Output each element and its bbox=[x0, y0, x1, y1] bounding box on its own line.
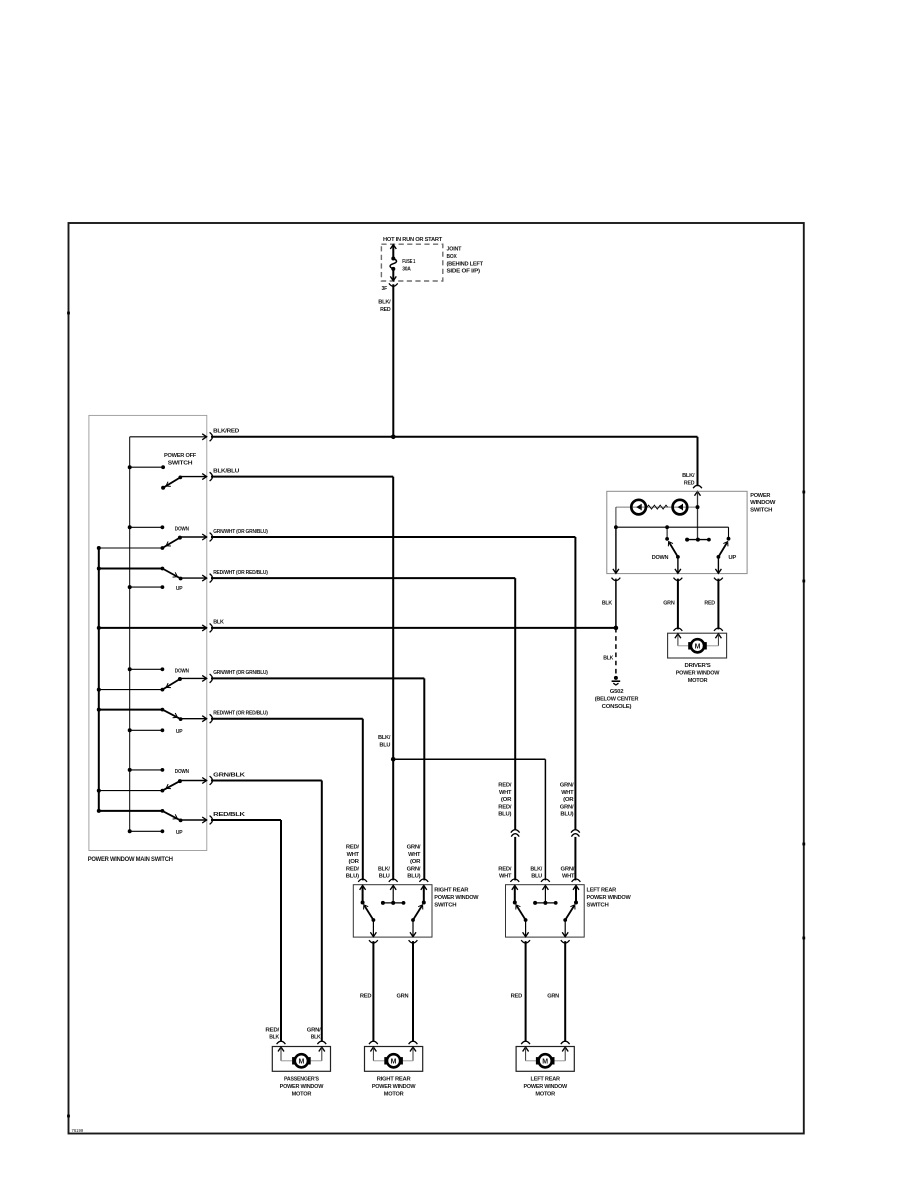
driver switch B+ contact bar bbox=[687, 539, 709, 541]
svg-text:POWER WINDOW: POWER WINDOW bbox=[372, 1084, 416, 1090]
driver's power window motor box bbox=[668, 633, 727, 658]
svg-text:WHT: WHT bbox=[562, 874, 575, 880]
left rear switch input stubs bbox=[512, 886, 518, 890]
connector pin BLK/RED at main switch edge bbox=[202, 434, 206, 440]
svg-text:WHT: WHT bbox=[408, 852, 421, 858]
left rear power window switch box bbox=[506, 885, 585, 937]
svg-text:(OR: (OR bbox=[410, 859, 421, 865]
passenger power window motor box bbox=[272, 1047, 330, 1072]
right rear switch output drops bbox=[372, 920, 374, 937]
svg-text:MOTOR: MOTOR bbox=[535, 1091, 556, 1097]
svg-text:RED: RED bbox=[511, 993, 522, 999]
svg-text:POWER WINDOW MAIN SWITCH: POWER WINDOW MAIN SWITCH bbox=[88, 856, 173, 863]
switch left rear right blade bbox=[565, 906, 574, 920]
connectors at left rear motor top bbox=[521, 1041, 530, 1044]
wire BLK/RED from fuse down to junction bbox=[392, 284, 394, 437]
connector pin BLK/BLU at main switch edge bbox=[202, 474, 206, 480]
connector pin RED/BLK at main switch edge bbox=[202, 817, 206, 823]
junction BLK/BLU node bbox=[391, 757, 396, 762]
main switch BLK ground row bbox=[99, 627, 207, 629]
svg-text:RED/WHT (OR RED/BLU): RED/WHT (OR RED/BLU) bbox=[213, 711, 268, 717]
connectors at passenger motor top bbox=[277, 1041, 286, 1044]
svg-text:DRIVER'S: DRIVER'S bbox=[685, 663, 711, 669]
wire GRN/WHT (OR GRN/BLU) row 1 bbox=[211, 536, 575, 538]
connector 3F bbox=[389, 283, 398, 286]
svg-text:(OR: (OR bbox=[501, 797, 512, 803]
svg-text:BLK: BLK bbox=[311, 1035, 322, 1041]
svg-text:BLU: BLU bbox=[379, 874, 390, 880]
connector pin RED/WHT (OR RED/BLU) at main switch edge bbox=[202, 716, 206, 722]
left rear power window motor box bbox=[516, 1047, 574, 1072]
svg-text:MOTOR: MOTOR bbox=[384, 1091, 405, 1097]
svg-text:RIGHT REAR: RIGHT REAR bbox=[377, 1077, 412, 1083]
wire BLK driver switch to junction bbox=[615, 579, 617, 628]
svg-text:SWITCH: SWITCH bbox=[587, 902, 609, 908]
connector pin GRN/WHT (OR GRN/BLU) at main switch edge bbox=[202, 534, 206, 540]
border tick marks bbox=[67, 312, 70, 315]
right rear motor internal wiring bbox=[372, 1047, 374, 1061]
wire RED to driver motor bbox=[717, 579, 719, 630]
svg-text:WINDOW: WINDOW bbox=[750, 500, 776, 506]
wire GRN/WHT vertical to right rear switch bbox=[423, 678, 425, 880]
joint box (dashed) bbox=[381, 244, 442, 281]
ground G502 bbox=[614, 676, 618, 680]
svg-text:FUSE 1: FUSE 1 bbox=[402, 259, 416, 265]
switch main PASS UP bbox=[99, 810, 163, 812]
svg-text:SIDE OF I/P): SIDE OF I/P) bbox=[447, 269, 481, 275]
connector below driver switch GRN bbox=[674, 578, 683, 581]
connector below driver switch BLK bbox=[612, 578, 621, 581]
illumination lamp left in driver switch bbox=[616, 506, 698, 508]
svg-text:RED: RED bbox=[360, 993, 371, 999]
svg-text:SWITCH: SWITCH bbox=[434, 902, 456, 908]
svg-text:WHT: WHT bbox=[561, 790, 574, 796]
connectors at right rear motor top bbox=[369, 1041, 378, 1044]
wire GRN/WHT vertical to left rear switch bbox=[574, 537, 576, 830]
svg-text:30A: 30A bbox=[402, 267, 411, 273]
wire BLK/BLU vertical bbox=[392, 477, 394, 760]
driver switch BLK output drop bbox=[615, 527, 617, 573]
svg-text:GRN/: GRN/ bbox=[407, 866, 421, 872]
wire RED left rear switch to motor bbox=[525, 941, 527, 1042]
right rear power window switch box bbox=[353, 885, 432, 937]
svg-text:RED/: RED/ bbox=[498, 783, 512, 789]
svg-text:RED/: RED/ bbox=[346, 866, 360, 872]
wire BLK/BLU branch to left rear switch bbox=[393, 758, 545, 760]
switch main LR DOWN bbox=[130, 526, 163, 528]
resistor between illumination lamps bbox=[647, 505, 668, 509]
connectors below right rear switch bbox=[369, 940, 378, 943]
svg-text:GRN/WHT (OR GRN/BLU): GRN/WHT (OR GRN/BLU) bbox=[213, 529, 268, 535]
connector pin BLK at main switch edge bbox=[202, 625, 206, 631]
wire RED right rear switch to motor bbox=[372, 941, 374, 1042]
power window main switch box bbox=[89, 415, 207, 850]
switch main LR UP bbox=[99, 568, 163, 570]
svg-text:GRN/BLK: GRN/BLK bbox=[213, 772, 246, 778]
svg-text:RED/: RED/ bbox=[346, 845, 360, 851]
svg-text:UP: UP bbox=[176, 729, 183, 735]
diagram border frame bbox=[69, 223, 804, 1134]
right rear power window motor box bbox=[365, 1047, 423, 1072]
connectors at right rear switch top bbox=[358, 879, 367, 882]
wire BLK/RED inside driver switch bbox=[697, 491, 699, 539]
wire GRN/BLK to passenger motor bbox=[211, 780, 322, 782]
svg-text:RED/: RED/ bbox=[498, 866, 512, 872]
svg-text:M: M bbox=[542, 1059, 548, 1066]
svg-text:BLU): BLU) bbox=[498, 812, 511, 818]
svg-text:M: M bbox=[391, 1059, 397, 1066]
connectors below left rear switch bbox=[521, 940, 530, 943]
svg-text:M: M bbox=[298, 1059, 304, 1066]
svg-text:3F: 3F bbox=[382, 286, 388, 292]
svg-text:POWER WINDOW: POWER WINDOW bbox=[523, 1084, 567, 1090]
driver power window switch box bbox=[607, 491, 747, 573]
switch driver UP blade bbox=[718, 543, 727, 557]
connector pin RED/WHT (OR RED/BLU) at main switch edge bbox=[202, 575, 206, 581]
connector at driver switch top bbox=[693, 485, 702, 488]
connector pin GRN/WHT (OR GRN/BLU) at main switch edge bbox=[202, 675, 206, 681]
svg-text:UP: UP bbox=[176, 830, 183, 836]
svg-text:BOX: BOX bbox=[447, 254, 457, 260]
wire RED/WHT vertical to left rear switch bbox=[514, 578, 516, 830]
driver switch DOWN contact drop bbox=[666, 527, 668, 539]
svg-text:RED: RED bbox=[704, 600, 714, 606]
switch main PASS DOWN bbox=[130, 769, 163, 771]
left rear motor internal wiring bbox=[525, 1047, 527, 1061]
wire GRN left rear switch to motor bbox=[564, 941, 566, 1042]
svg-text:JOINT: JOINT bbox=[447, 247, 462, 253]
svg-text:BLK: BLK bbox=[269, 1035, 280, 1041]
motor M right rear bbox=[384, 1057, 386, 1064]
svg-text:G502: G502 bbox=[610, 689, 624, 695]
svg-text:BLK: BLK bbox=[213, 620, 224, 626]
svg-text:DOWN: DOWN bbox=[175, 769, 189, 775]
svg-text:GRN/: GRN/ bbox=[560, 804, 574, 810]
fuse FUSE 1 30A bbox=[390, 245, 396, 249]
svg-text:(BELOW CENTER: (BELOW CENTER bbox=[595, 696, 639, 702]
left rear switch contact bar bbox=[535, 902, 556, 904]
wire BLK/RED down to driver power window switch bbox=[697, 437, 699, 486]
svg-text:DOWN: DOWN bbox=[652, 555, 669, 561]
svg-text:WHT: WHT bbox=[499, 874, 512, 880]
svg-text:WHT: WHT bbox=[499, 790, 512, 796]
svg-text:GRN/: GRN/ bbox=[560, 783, 574, 789]
svg-text:MOTOR: MOTOR bbox=[292, 1091, 313, 1097]
svg-text:RED: RED bbox=[684, 481, 694, 487]
passenger motor internal wiring bbox=[280, 1047, 282, 1061]
svg-text:POWER OFF: POWER OFF bbox=[164, 453, 197, 459]
driver switch GRN output drop bbox=[677, 557, 679, 573]
svg-text:POWER WINDOW: POWER WINDOW bbox=[587, 895, 632, 901]
motor M left rear bbox=[536, 1057, 538, 1064]
svg-text:(OR: (OR bbox=[563, 797, 574, 803]
svg-text:DOWN: DOWN bbox=[175, 669, 189, 675]
junction BLK node at G502 drop bbox=[614, 626, 619, 631]
wire BLK/BLU down to right rear switch bbox=[392, 759, 394, 880]
inline connector on RED/WHT wire bbox=[511, 830, 520, 833]
svg-text:RED/: RED/ bbox=[265, 1027, 279, 1033]
svg-text:BLU): BLU) bbox=[560, 812, 573, 818]
wire RED/BLK to passenger motor bbox=[211, 819, 281, 821]
svg-text:POWER: POWER bbox=[750, 493, 771, 499]
svg-text:POWER WINDOW: POWER WINDOW bbox=[280, 1084, 324, 1090]
wire main LR DOWN contact to ground bus bbox=[99, 547, 163, 549]
junction lamp circuit to BLK/RED bbox=[696, 505, 700, 509]
illumination lamp right in driver switch bbox=[673, 500, 688, 515]
wire main PASS DOWN contact to ground bus bbox=[99, 790, 163, 792]
connectors at left rear switch top bbox=[510, 879, 519, 882]
svg-text:BLK/: BLK/ bbox=[378, 866, 390, 872]
svg-text:BLU: BLU bbox=[379, 743, 390, 749]
svg-text:BLU): BLU) bbox=[346, 874, 359, 880]
junction BLK/RED node bbox=[391, 435, 396, 440]
svg-text:GRN: GRN bbox=[397, 993, 409, 999]
wire GRN to driver motor bbox=[677, 579, 679, 630]
wire GRN/WHT (OR GRN/BLU) row 2 bbox=[211, 677, 424, 679]
wire lamp circuit to ground rail bbox=[615, 507, 617, 527]
connector below driver switch RED bbox=[714, 578, 723, 581]
svg-text:MOTOR: MOTOR bbox=[688, 678, 709, 684]
svg-text:BLK: BLK bbox=[602, 600, 613, 606]
connector pin GRN/BLK at main switch edge bbox=[202, 778, 206, 784]
svg-text:PASSENGER'S: PASSENGER'S bbox=[284, 1077, 319, 1083]
svg-text:GRN: GRN bbox=[547, 993, 559, 999]
left rear switch output drops bbox=[525, 920, 527, 937]
inline connector on GRN/WHT wire bbox=[571, 830, 580, 833]
svg-text:BLK/RED: BLK/RED bbox=[213, 429, 239, 435]
svg-text:RED/: RED/ bbox=[498, 804, 512, 810]
motor M passenger bbox=[292, 1057, 294, 1064]
svg-text:RED/WHT (OR RED/BLU): RED/WHT (OR RED/BLU) bbox=[213, 570, 268, 576]
svg-text:(OR: (OR bbox=[349, 859, 360, 865]
wire RED/WHT vertical to right rear switch bbox=[362, 719, 364, 881]
svg-text:POWER WINDOW: POWER WINDOW bbox=[676, 671, 720, 677]
wire main RR DOWN contact to ground bus bbox=[99, 689, 163, 691]
driver switch RED output drop bbox=[717, 557, 719, 573]
svg-text:BLK: BLK bbox=[603, 656, 614, 662]
svg-text:GRN/: GRN/ bbox=[561, 866, 575, 872]
svg-text:LEFT REAR: LEFT REAR bbox=[587, 888, 617, 894]
driver motor connectors at box top bbox=[674, 628, 683, 631]
svg-text:UP: UP bbox=[728, 555, 736, 561]
svg-text:GRN/: GRN/ bbox=[407, 845, 421, 851]
power off switch bbox=[130, 466, 163, 468]
switch driver DOWN blade bbox=[669, 543, 678, 557]
svg-text:SWITCH: SWITCH bbox=[168, 461, 192, 467]
svg-text:GRN: GRN bbox=[663, 600, 674, 606]
svg-text:76199: 76199 bbox=[72, 1128, 84, 1133]
svg-text:SWITCH: SWITCH bbox=[750, 507, 772, 513]
main switch ground bus BLK bbox=[98, 548, 100, 811]
svg-text:BLU: BLU bbox=[531, 874, 542, 880]
switch main RR DOWN bbox=[130, 668, 163, 670]
motor M driver's bbox=[688, 642, 690, 649]
right rear switch input stubs bbox=[360, 886, 366, 890]
switch right rear left blade bbox=[364, 906, 373, 920]
svg-text:CONSOLE): CONSOLE) bbox=[602, 704, 632, 710]
wire RED/WHT (OR RED/BLU) row 2 bbox=[211, 718, 363, 720]
wire RED/WHT (OR RED/BLU) row 1 bbox=[211, 577, 515, 579]
driver motor internal wiring bbox=[677, 634, 679, 646]
svg-text:RED: RED bbox=[380, 307, 390, 313]
svg-text:BLK/BLU: BLK/BLU bbox=[213, 468, 239, 474]
main switch B+ bus from BLK/RED bbox=[130, 436, 207, 438]
svg-text:(BEHIND LEFT: (BEHIND LEFT bbox=[447, 261, 484, 267]
svg-text:DOWN: DOWN bbox=[175, 527, 189, 533]
switch main RR UP bbox=[99, 709, 163, 711]
svg-text:GRN/: GRN/ bbox=[307, 1027, 321, 1033]
svg-text:BLK/: BLK/ bbox=[378, 300, 391, 306]
wire BLK dashed to ground bbox=[615, 628, 617, 675]
svg-text:BLK/: BLK/ bbox=[530, 866, 542, 872]
svg-text:RED/BLK: RED/BLK bbox=[213, 812, 246, 818]
svg-text:BLK/: BLK/ bbox=[378, 735, 391, 741]
svg-text:GRN/WHT (OR GRN/BLU): GRN/WHT (OR GRN/BLU) bbox=[213, 670, 268, 676]
right rear switch contact bar bbox=[383, 902, 404, 904]
svg-text:M: M bbox=[695, 644, 701, 651]
svg-text:HOT IN RUN OR START: HOT IN RUN OR START bbox=[383, 237, 443, 243]
svg-text:UP: UP bbox=[176, 586, 183, 592]
svg-text:LEFT REAR: LEFT REAR bbox=[531, 1077, 561, 1083]
svg-text:BLK/: BLK/ bbox=[682, 473, 695, 479]
wire BLK row to driver switch ground bbox=[211, 627, 616, 629]
svg-text:RIGHT REAR: RIGHT REAR bbox=[434, 888, 469, 894]
svg-text:POWER WINDOW: POWER WINDOW bbox=[434, 895, 479, 901]
svg-text:BLU): BLU) bbox=[407, 874, 420, 880]
switch left rear left blade bbox=[517, 906, 526, 920]
driver switch ground rail bbox=[616, 526, 729, 528]
wire BLK/BLU row bbox=[211, 476, 393, 478]
switch right rear right blade bbox=[413, 906, 422, 920]
wire GRN right rear switch to motor bbox=[412, 941, 414, 1042]
svg-text:WHT: WHT bbox=[347, 852, 360, 858]
wire BLK/RED row to driver switch bbox=[211, 436, 698, 438]
